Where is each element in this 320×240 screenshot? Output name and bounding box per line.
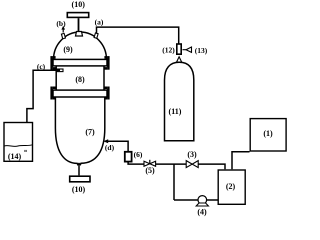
nozzle stub b bbox=[61, 33, 65, 38]
section (7) body and round bottom bbox=[55, 98, 104, 165]
valve (5) bbox=[144, 160, 156, 167]
svg-text:(6): (6) bbox=[134, 150, 143, 159]
wire d to rotameter 6 bbox=[106, 141, 128, 151]
svg-text:(12): (12) bbox=[162, 46, 175, 55]
wire rotameter to valve 5 line bbox=[128, 162, 144, 164]
gauge triangle (13) bbox=[183, 47, 192, 52]
svg-text:(5): (5) bbox=[145, 166, 155, 175]
rotameter (6) bbox=[125, 152, 132, 162]
bottom flange right cap bbox=[104, 87, 109, 100]
valve (3) bbox=[186, 161, 198, 168]
box (2) bbox=[218, 170, 245, 204]
svg-text:(1): (1) bbox=[263, 129, 273, 138]
tank (14) bbox=[4, 123, 33, 162]
svg-text:(7): (7) bbox=[85, 128, 95, 137]
top flange right cap bbox=[104, 56, 109, 70]
stirrer shaft wire bbox=[78, 18, 80, 32]
svg-text:(2): (2) bbox=[226, 182, 236, 191]
svg-text:(10): (10) bbox=[72, 0, 86, 9]
svg-text:(14): (14) bbox=[8, 152, 22, 161]
svg-text:(a): (a) bbox=[95, 18, 104, 27]
bottom box (10) bbox=[70, 176, 90, 182]
vessel dome (9) bbox=[54, 32, 107, 60]
svg-text:(4): (4) bbox=[197, 208, 207, 217]
bottom flange bar bbox=[53, 90, 107, 97]
wire c to tank 14 bbox=[27, 70, 60, 122]
regulator (12) bbox=[177, 44, 181, 54]
motor box M (10) bbox=[67, 13, 88, 18]
tank 14 liquid level wave bbox=[4, 145, 33, 147]
svg-text:(c): (c) bbox=[37, 62, 46, 71]
nozzle stub c bbox=[57, 69, 63, 72]
pump (4) bbox=[196, 196, 208, 206]
box (1) bbox=[250, 119, 286, 151]
pump suction wire bbox=[174, 199, 198, 201]
nozzle stub a bbox=[94, 33, 98, 38]
wire valve5 to valve3 bbox=[156, 163, 187, 165]
dome center nozzle bbox=[76, 32, 83, 37]
wire valve3 to reactor 2 bbox=[198, 164, 225, 169]
svg-text:(9): (9) bbox=[63, 45, 73, 54]
bottom flange left cap bbox=[50, 87, 55, 100]
outlet arrow d bbox=[103, 139, 108, 143]
cylinder neck bbox=[177, 57, 182, 62]
svg-text:(b): (b) bbox=[56, 19, 66, 28]
bottom outlet wire bbox=[78, 164, 80, 175]
wire box1 to box2 bbox=[232, 152, 250, 170]
section (8) right wall bbox=[103, 66, 105, 90]
top flange bar bbox=[53, 59, 107, 66]
junction wire down to pump line bbox=[173, 164, 175, 200]
svg-text:(d): (d) bbox=[105, 143, 115, 152]
vent arrow (b) bbox=[61, 26, 65, 33]
pump discharge wire bbox=[207, 199, 218, 201]
svg-text:(11): (11) bbox=[169, 107, 182, 116]
gas cylinder (11) bbox=[165, 62, 194, 141]
svg-text:(3): (3) bbox=[187, 150, 197, 159]
top flange left cap bbox=[50, 56, 55, 70]
svg-text:(10): (10) bbox=[72, 185, 86, 194]
svg-text:(13): (13) bbox=[195, 46, 208, 55]
svg-text:(8): (8) bbox=[75, 75, 85, 84]
wire a: nozzle to gas valve bbox=[97, 27, 179, 43]
section (8) left wall bbox=[55, 66, 57, 90]
